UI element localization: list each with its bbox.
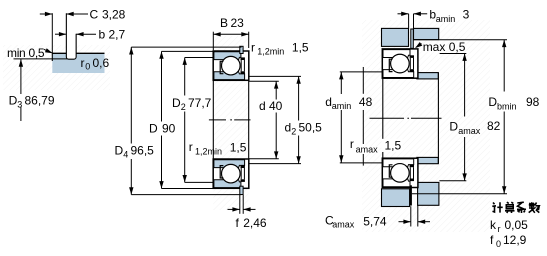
svg-text:r: r — [350, 137, 354, 151]
svg-text:r: r — [81, 56, 85, 70]
svg-text:4: 4 — [123, 150, 128, 160]
faint hatch backgrounds — [3, 45, 110, 90]
svg-text:D: D — [115, 144, 124, 158]
svg-text:bmin: bmin — [497, 101, 517, 111]
svg-text:3: 3 — [17, 100, 22, 110]
d2 dimension — [249, 75, 301, 77]
bottom right block — [418, 182, 439, 205]
svg-text:48: 48 — [359, 95, 373, 109]
svg-text:r: r — [498, 224, 501, 234]
centerline — [209, 119, 251, 121]
svg-text:1,2min: 1,2min — [195, 146, 222, 156]
svg-text:amax: amax — [458, 126, 481, 136]
svg-text:2: 2 — [291, 127, 296, 137]
svg-text:23: 23 — [231, 16, 245, 30]
svg-text:amax: amax — [356, 144, 379, 154]
D_amax dimension — [440, 53, 467, 55]
bearing sections (white) — [382, 49, 418, 78]
svg-text:r: r — [189, 140, 193, 154]
bore cylinder lines between sections — [212, 81, 214, 160]
D dimension — [162, 50, 214, 52]
D4 dimension — [131, 46, 241, 48]
white slot over hatch (bottom groove gap) — [412, 184, 417, 207]
svg-text:C: C — [90, 7, 99, 21]
groove slot — [66, 13, 76, 59]
svg-text:0: 0 — [85, 62, 90, 72]
svg-text:1,5: 1,5 — [292, 40, 309, 54]
svg-text:86,79: 86,79 — [25, 94, 55, 108]
groove root reference line — [14, 58, 69, 60]
b_amin dimension — [408, 14, 410, 29]
svg-text:2,7: 2,7 — [109, 28, 126, 42]
svg-text:D: D — [149, 122, 158, 136]
svg-text:D: D — [449, 120, 458, 134]
svg-text:3,28: 3,28 — [102, 7, 126, 21]
snap ring tabs — [240, 46, 243, 53]
svg-text:96,5: 96,5 — [131, 144, 155, 158]
svg-text:50,5: 50,5 — [299, 121, 323, 135]
计算系数 hand-drawn — [492, 202, 539, 213]
svg-text:90: 90 — [162, 122, 176, 136]
svg-text:1,2min: 1,2min — [257, 47, 284, 57]
svg-text:1,5: 1,5 — [230, 141, 247, 155]
ring cross-section body — [52, 53, 104, 73]
svg-text:D: D — [172, 96, 181, 110]
upper bearing section — [213, 51, 249, 80]
bottom recess line extends right — [412, 193, 507, 195]
svg-text:amin: amin — [332, 101, 352, 111]
shaft abutment sleeves — [417, 73, 438, 79]
svg-text:98: 98 — [526, 95, 540, 109]
svg-text:r: r — [251, 40, 255, 54]
left face line — [51, 53, 53, 61]
recess surface line extends right — [414, 39, 508, 41]
svg-text:B: B — [220, 16, 228, 30]
d dimension — [249, 80, 279, 82]
svg-text:0: 0 — [496, 239, 501, 249]
svg-text:3: 3 — [463, 8, 470, 22]
f dimension — [239, 195, 241, 214]
housing bottom block — [382, 189, 410, 207]
D3 dimension — [19, 59, 23, 66]
C_amax dimension — [410, 206, 412, 226]
svg-text:1,5: 1,5 — [385, 139, 402, 153]
svg-text:0,6: 0,6 — [93, 56, 110, 70]
svg-text:2: 2 — [181, 102, 186, 112]
housing top recess block — [414, 28, 439, 39]
svg-text:D: D — [9, 94, 18, 108]
C dimension — [51, 13, 53, 53]
max 0,5 label + leader — [416, 44, 422, 48]
lower bearing section — [213, 159, 249, 188]
D_bmin dimension — [502, 40, 506, 47]
48 second line — [362, 67, 364, 94]
column lines between sections — [382, 79, 384, 158]
B dimension — [212, 32, 214, 51]
d_amin dimension — [340, 71, 383, 73]
svg-text:min 0,5: min 0,5 — [7, 46, 45, 60]
housing top block — [382, 28, 409, 46]
svg-text:2,46: 2,46 — [243, 216, 267, 230]
svg-text:k: k — [490, 218, 497, 232]
svg-text:0,05: 0,05 — [505, 218, 529, 232]
centerline — [370, 117, 442, 119]
svg-text:d: d — [285, 121, 292, 135]
svg-text:amin: amin — [436, 14, 456, 24]
svg-text:40: 40 — [269, 99, 283, 113]
svg-text:12,9: 12,9 — [503, 233, 527, 247]
D2 dimension — [185, 57, 214, 59]
svg-text:82: 82 — [487, 119, 501, 133]
svg-text:max 0,5: max 0,5 — [423, 40, 466, 54]
top surface line — [52, 52, 104, 54]
b dimension — [55, 33, 66, 35]
svg-text:77,7: 77,7 — [188, 96, 212, 110]
snap ring tabs — [411, 29, 414, 48]
svg-text:amax: amax — [332, 220, 355, 230]
svg-text:b: b — [99, 28, 106, 42]
svg-text:5,74: 5,74 — [363, 214, 387, 228]
svg-text:d: d — [259, 99, 266, 113]
